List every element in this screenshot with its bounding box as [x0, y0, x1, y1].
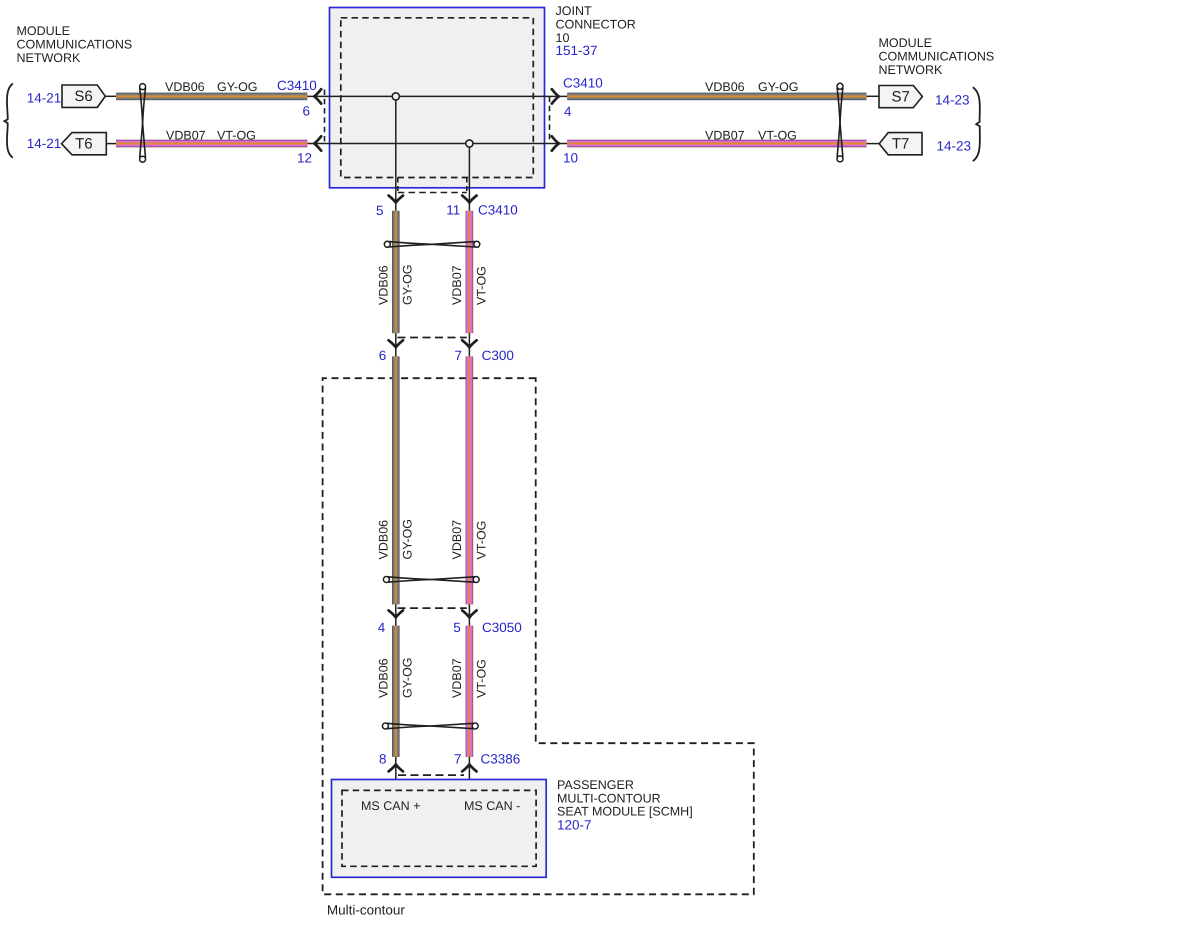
- svg-text:GY-OG: GY-OG: [217, 80, 258, 94]
- svg-text:VDB07: VDB07: [705, 129, 745, 143]
- svg-text:6: 6: [302, 103, 310, 118]
- svg-text:COMMUNICATIONS: COMMUNICATIONS: [879, 49, 995, 63]
- svg-text:MS CAN -: MS CAN -: [464, 799, 520, 813]
- svg-text:14-23: 14-23: [937, 139, 972, 154]
- svg-text:JOINT: JOINT: [556, 4, 592, 18]
- svg-text:VT-OG: VT-OG: [474, 659, 488, 698]
- svg-text:14-21: 14-21: [27, 136, 62, 151]
- svg-text:T7: T7: [892, 136, 910, 153]
- svg-text:C300: C300: [482, 348, 514, 363]
- svg-text:VT-OG: VT-OG: [474, 521, 488, 560]
- svg-text:VDB06: VDB06: [705, 80, 745, 94]
- svg-text:7: 7: [455, 348, 463, 363]
- svg-text:S7: S7: [892, 89, 910, 106]
- svg-text:GY-OG: GY-OG: [758, 80, 799, 94]
- svg-text:VDB07: VDB07: [450, 658, 464, 698]
- svg-text:151-37: 151-37: [556, 43, 598, 58]
- svg-text:8: 8: [379, 752, 387, 767]
- svg-text:NETWORK: NETWORK: [17, 51, 82, 65]
- svg-text:MODULE: MODULE: [17, 24, 70, 38]
- svg-text:GY-OG: GY-OG: [401, 264, 415, 305]
- svg-text:MS CAN +: MS CAN +: [361, 799, 420, 813]
- svg-text:VDB07: VDB07: [450, 520, 464, 560]
- svg-text:VT-OG: VT-OG: [758, 129, 797, 143]
- svg-text:C3410: C3410: [277, 78, 317, 93]
- svg-text:VDB07: VDB07: [166, 129, 206, 143]
- svg-text:GY-OG: GY-OG: [401, 657, 415, 698]
- svg-text:GY-OG: GY-OG: [401, 519, 415, 560]
- svg-text:14-23: 14-23: [935, 92, 970, 107]
- svg-text:T6: T6: [75, 136, 93, 153]
- svg-text:6: 6: [379, 348, 387, 363]
- svg-text:10: 10: [563, 150, 578, 165]
- svg-text:4: 4: [564, 104, 572, 119]
- svg-text:S6: S6: [74, 88, 92, 105]
- svg-text:PASSENGER: PASSENGER: [557, 778, 634, 792]
- svg-text:11: 11: [446, 202, 460, 217]
- svg-text:12: 12: [297, 150, 312, 165]
- svg-text:VDB06: VDB06: [377, 658, 391, 698]
- svg-text:CONNECTOR: CONNECTOR: [556, 17, 636, 31]
- svg-text:7: 7: [454, 752, 462, 767]
- svg-text:4: 4: [378, 620, 386, 635]
- svg-text:C3410: C3410: [478, 202, 518, 217]
- svg-text:VT-OG: VT-OG: [217, 129, 256, 143]
- svg-text:14-21: 14-21: [27, 90, 62, 105]
- svg-text:120-7: 120-7: [557, 817, 592, 832]
- svg-text:NETWORK: NETWORK: [879, 63, 944, 77]
- svg-text:MULTI-CONTOUR: MULTI-CONTOUR: [557, 791, 661, 805]
- svg-text:Multi-contour: Multi-contour: [327, 903, 406, 918]
- svg-text:C3410: C3410: [563, 76, 603, 91]
- svg-text:VDB06: VDB06: [377, 265, 391, 305]
- svg-text:C3050: C3050: [482, 620, 522, 635]
- svg-text:5: 5: [376, 203, 384, 218]
- svg-text:5: 5: [453, 620, 461, 635]
- svg-text:COMMUNICATIONS: COMMUNICATIONS: [17, 38, 133, 52]
- svg-text:MODULE: MODULE: [879, 36, 932, 50]
- svg-text:VDB06: VDB06: [377, 520, 391, 560]
- svg-text:VT-OG: VT-OG: [474, 266, 488, 305]
- svg-text:VDB07: VDB07: [450, 265, 464, 305]
- svg-text:C3386: C3386: [481, 752, 521, 767]
- svg-text:VDB06: VDB06: [165, 80, 205, 94]
